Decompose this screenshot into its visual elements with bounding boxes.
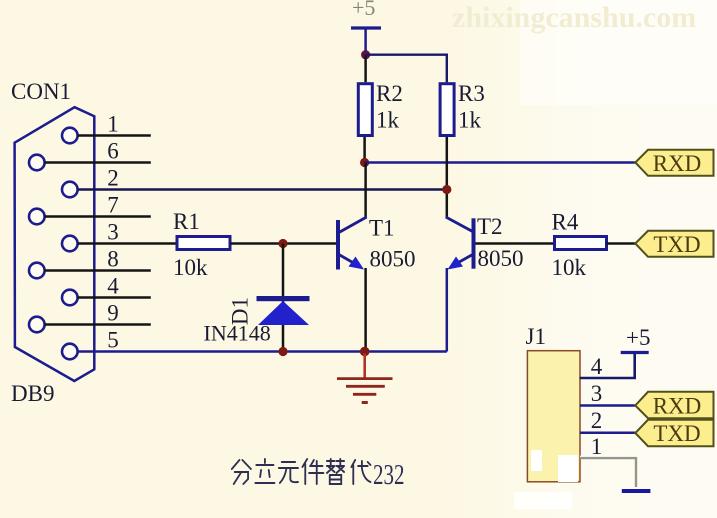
power +5 J1 bar (621, 351, 649, 354)
diode D1 cathode bar (257, 296, 310, 301)
label CON1 (11, 79, 71, 104)
svg-text:1: 1 (107, 111, 119, 136)
char li (255, 459, 274, 483)
svg-text:TXD: TXD (653, 232, 700, 257)
title chinese characters (232, 459, 371, 484)
svg-text:CON1: CON1 (11, 79, 71, 104)
pin number 9 (107, 300, 119, 325)
wire R3 bottom to junction (446, 137, 449, 217)
watermark text (452, 1, 696, 34)
char yuan (279, 462, 298, 483)
node junction ground (360, 347, 370, 357)
wire RXD line (365, 161, 636, 164)
svg-text:1k: 1k (458, 108, 482, 133)
svg-text:1: 1 (591, 434, 603, 459)
label R1 (173, 209, 200, 234)
wire R4 to TXD (607, 242, 636, 245)
title 232 text (373, 460, 405, 491)
svg-text:zhixingcanshu.com: zhixingcanshu.com (452, 1, 696, 34)
svg-text:T2: T2 (477, 214, 503, 239)
power +5 top bar (351, 26, 381, 29)
connector J1 body (527, 351, 580, 482)
pin number 4 J1 (591, 354, 603, 379)
node junction R1/D1 (278, 239, 287, 248)
svg-text:6: 6 (107, 138, 119, 163)
svg-text:R4: R4 (552, 210, 579, 235)
pin number 7 (107, 192, 119, 217)
pin number 1 (107, 111, 119, 136)
pin 8 circle (29, 263, 45, 279)
wire +5 stem (364, 28, 367, 55)
wire pin2 to T2 collector node (78, 188, 447, 191)
pin number 2 J1 (591, 408, 603, 433)
pin number 1 J1 (591, 434, 603, 459)
svg-text:DB9: DB9 (11, 381, 54, 406)
label J1 (526, 324, 546, 349)
pin 7 circle (29, 209, 45, 225)
svg-text:R1: R1 (173, 209, 200, 234)
value 1k R2 (376, 108, 400, 133)
ground symbol main (337, 354, 393, 403)
ground J1 bar (622, 489, 651, 493)
resistor R4 (555, 237, 607, 250)
svg-text:1k: 1k (376, 108, 400, 133)
wire R2 bottom to junction (363, 137, 366, 163)
svg-text:2: 2 (591, 408, 603, 433)
char ti (327, 459, 344, 484)
resistor R3 (440, 84, 454, 136)
wire J1 pin1 gray (580, 456, 637, 487)
label R4 (552, 210, 579, 235)
port RXD top flag (635, 150, 713, 176)
port RXD bottom flag (635, 392, 713, 419)
pin number 3 (107, 219, 119, 244)
pin 1 circle (62, 128, 78, 144)
node junction T2 collector (442, 185, 451, 194)
diode D1 triangle (258, 301, 309, 325)
transistor T1 (338, 217, 367, 270)
value 1k R3 (458, 108, 482, 133)
svg-text:T1: T1 (369, 216, 395, 241)
wire pin4 (78, 296, 151, 299)
wire J1 pin4 (580, 352, 635, 378)
svg-text:9: 9 (107, 300, 119, 325)
svg-text:R2: R2 (376, 81, 403, 106)
pin 5 circle (62, 344, 78, 360)
svg-text:IN4148: IN4148 (204, 321, 271, 346)
wire pin6 (45, 161, 151, 164)
svg-text:8: 8 (107, 246, 119, 271)
svg-text:+5: +5 (626, 325, 650, 350)
wire T2 base to R4 (476, 242, 555, 245)
pin 9 circle (29, 317, 45, 333)
pin 3 circle (62, 236, 78, 252)
label T2 (477, 214, 503, 239)
wire pin1 (78, 134, 151, 137)
svg-text:J1: J1 (526, 324, 546, 349)
value 10k R1 (173, 255, 208, 280)
label R2 (376, 81, 403, 106)
port TXD bottom flag (635, 420, 713, 446)
wire pin5 ground rail (78, 350, 447, 353)
node junction RXD (360, 158, 369, 167)
svg-text:4: 4 (107, 273, 119, 298)
pin 2 circle (62, 182, 78, 198)
wire pin8 (45, 269, 151, 272)
wire J1 pin3 (580, 404, 635, 407)
wire +5 to R2 (364, 55, 367, 82)
wire pin3 to R1 (78, 242, 178, 245)
node junction D1 bottom (278, 347, 287, 356)
white patch inside J1 (531, 450, 578, 482)
pin number 8 (107, 246, 119, 271)
wire pin9 (45, 323, 151, 326)
svg-text:8050: 8050 (478, 246, 524, 271)
background right lighter region (440, 0, 717, 518)
value 10k R4 (552, 255, 587, 280)
svg-text:3: 3 (107, 219, 119, 244)
pin 6 circle (29, 155, 45, 171)
label R3 (458, 81, 485, 106)
svg-text:7: 7 (107, 192, 119, 217)
wire J1 pin2 (580, 432, 635, 435)
pin number 2 (107, 165, 119, 190)
node junction +5 (361, 50, 370, 59)
value 8050 T1 (370, 247, 416, 272)
transistor T2 (446, 217, 474, 270)
power +5 J1 label (626, 325, 650, 350)
white patch below J1 (514, 492, 572, 509)
char fen (232, 460, 251, 484)
label D1 (228, 297, 253, 325)
wire T1 collector vertical (364, 163, 367, 218)
pin number 6 (107, 138, 119, 163)
svg-text:10k: 10k (552, 255, 587, 280)
char dai (351, 460, 370, 484)
svg-text:232: 232 (373, 460, 405, 491)
svg-text:4: 4 (591, 354, 603, 379)
wire D1 vertical (282, 244, 285, 352)
resistor R1 (177, 237, 230, 250)
resistor R2 (358, 84, 372, 136)
label T1 (369, 216, 395, 241)
pin number 5 (107, 327, 119, 352)
svg-text:8050: 8050 (370, 247, 416, 272)
connector CON1 DB9 outline (15, 107, 95, 381)
svg-text:+5: +5 (352, 0, 375, 20)
svg-text:5: 5 (107, 327, 119, 352)
power +5 top label (352, 0, 375, 20)
value 8050 T2 (478, 246, 524, 271)
svg-text:RXD: RXD (653, 151, 702, 176)
wire T2 emitter to rail (446, 268, 449, 352)
wire R1 to T1 base (230, 242, 337, 245)
svg-text:10k: 10k (173, 255, 208, 280)
value IN4148 (204, 321, 271, 346)
char jian (302, 459, 323, 484)
pin number 4 (107, 273, 119, 298)
wire +5 to R3 corner (366, 55, 447, 82)
svg-text:R3: R3 (458, 81, 485, 106)
label DB9 (11, 381, 54, 406)
wire pin7 (45, 215, 151, 218)
pin 4 circle (62, 290, 78, 306)
svg-text:TXD: TXD (653, 421, 700, 446)
port TXD top flag (635, 231, 713, 257)
pin number 3 J1 (591, 381, 603, 406)
svg-text:2: 2 (107, 165, 119, 190)
svg-text:RXD: RXD (653, 394, 702, 419)
wire T1 emitter vertical (364, 268, 367, 352)
svg-text:3: 3 (591, 381, 603, 406)
